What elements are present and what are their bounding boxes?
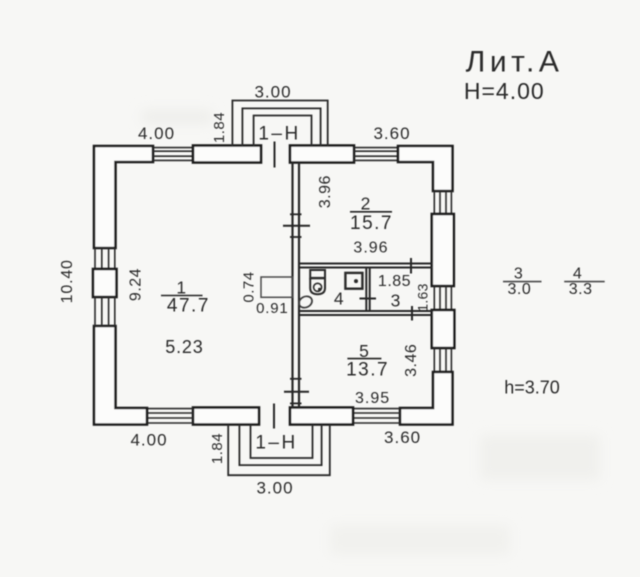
pier bottom wall 2 — [290, 408, 353, 425]
svg-text:1.85: 1.85 — [378, 273, 411, 290]
porch bottom inner outline — [251, 425, 313, 459]
svg-text:Лит.А: Лит.А — [466, 46, 564, 79]
sink square — [345, 273, 362, 289]
svg-text:3.46: 3.46 — [403, 344, 420, 377]
svg-text:3: 3 — [391, 290, 401, 310]
svg-text:3.00: 3.00 — [256, 479, 293, 498]
svg-text:3.0: 3.0 — [508, 281, 532, 298]
door opening tick top entrance — [274, 142, 276, 168]
window right wall 3 — [434, 348, 451, 372]
window right wall 2 — [434, 286, 451, 310]
toilet tank — [310, 270, 325, 278]
doorway tick upper short 1 — [290, 213, 302, 215]
svg-text:1.84: 1.84 — [209, 433, 226, 464]
corner wall bottom-right — [400, 372, 453, 425]
storey fraction 4/3.3 bar — [564, 281, 605, 283]
window left wall 2 — [95, 297, 115, 326]
porch top middle outline — [242, 108, 320, 146]
pier top wall 2 — [290, 146, 354, 163]
porch bottom middle outline — [239, 425, 321, 466]
doorway tick upper long — [283, 225, 310, 227]
pier right wall 2 — [432, 310, 455, 348]
partition wall rooms4/3 line right — [369, 268, 371, 312]
svg-text:1: 1 — [176, 277, 186, 297]
doorway tick lower long — [284, 391, 309, 393]
window left wall 1 — [95, 248, 115, 269]
stove rectangle room1 — [261, 277, 293, 297]
svg-text:1.84: 1.84 — [211, 112, 228, 143]
door tick room4-room3 — [360, 298, 377, 300]
corner wall top-left — [94, 146, 153, 248]
svg-text:15.7: 15.7 — [350, 213, 393, 234]
pier bottom wall 1 — [193, 408, 259, 425]
svg-text:1–Н: 1–Н — [255, 432, 297, 453]
svg-text:3.96: 3.96 — [317, 175, 334, 208]
pier top wall 1 — [193, 146, 261, 163]
svg-text:3.95: 3.95 — [355, 390, 390, 407]
sink dot — [354, 279, 358, 283]
interior bearing wall line right — [298, 162, 300, 408]
svg-text:4.00: 4.00 — [138, 124, 175, 143]
svg-text:3.96: 3.96 — [353, 239, 388, 256]
svg-text:4.00: 4.00 — [130, 431, 167, 450]
svg-text:3.3: 3.3 — [569, 281, 593, 298]
toilet bowl dot — [318, 288, 321, 291]
svg-text:5.23: 5.23 — [165, 337, 203, 357]
doorway tick upper short 2 — [290, 236, 302, 238]
svg-text:2: 2 — [361, 194, 371, 214]
basin oval — [297, 294, 314, 310]
doorway tick lower short 1 — [290, 378, 302, 380]
partition wall rooms4/3 line left — [365, 268, 367, 312]
svg-text:3.60: 3.60 — [373, 124, 410, 143]
svg-text:3.60: 3.60 — [384, 428, 421, 447]
toilet bowl circle — [314, 283, 322, 291]
svg-text:10.40: 10.40 — [59, 259, 76, 303]
room5 fraction bar — [347, 358, 381, 360]
window top wall right — [354, 148, 398, 161]
corner wall bottom-left — [94, 326, 147, 425]
interior bearing wall line left — [291, 162, 293, 408]
porch bottom outer outline — [228, 425, 330, 476]
svg-text:1–Н: 1–Н — [258, 123, 300, 144]
svg-text:5: 5 — [359, 341, 369, 361]
window top wall left — [153, 148, 193, 161]
svg-text:h=3.70: h=3.70 — [504, 378, 560, 398]
svg-text:47.7: 47.7 — [167, 295, 210, 316]
pier left wall — [93, 269, 117, 297]
svg-text:1.63: 1.63 — [415, 283, 431, 311]
svg-text:4: 4 — [334, 289, 344, 309]
room2 fraction bar — [350, 211, 392, 213]
svg-text:0.74: 0.74 — [241, 271, 258, 302]
toilet tank inner line — [310, 277, 325, 279]
window bottom wall left — [147, 409, 193, 423]
svg-text:13.7: 13.7 — [346, 359, 389, 380]
svg-text:0.91: 0.91 — [256, 300, 288, 317]
svg-text:3.00: 3.00 — [254, 83, 291, 102]
door opening tick bottom entrance — [273, 404, 275, 429]
corner wall top-right — [398, 146, 453, 191]
doorway tick lower short 2 — [290, 402, 302, 404]
svg-text:Н=4.00: Н=4.00 — [464, 78, 545, 104]
pier right wall 1 — [432, 214, 454, 286]
toilet bowl outline — [310, 278, 325, 294]
partition wall rooms34/5 line upper — [299, 310, 433, 312]
partition wall rooms2/34 line lower — [299, 267, 433, 269]
svg-text:9.24: 9.24 — [127, 268, 144, 301]
porch top outer outline — [232, 101, 327, 147]
window right wall 1 — [434, 191, 451, 214]
room1 fraction bar — [161, 295, 203, 297]
window bottom wall right — [353, 409, 400, 423]
partition wall rooms2/34 line upper — [299, 263, 433, 265]
storey fraction 3/3.0 bar — [503, 281, 542, 283]
door tick room2-room3 — [410, 258, 412, 274]
partition wall rooms34/5 line lower — [299, 314, 433, 316]
door tick room3-room5 — [411, 306, 413, 321]
porch top inner outline — [254, 116, 312, 147]
